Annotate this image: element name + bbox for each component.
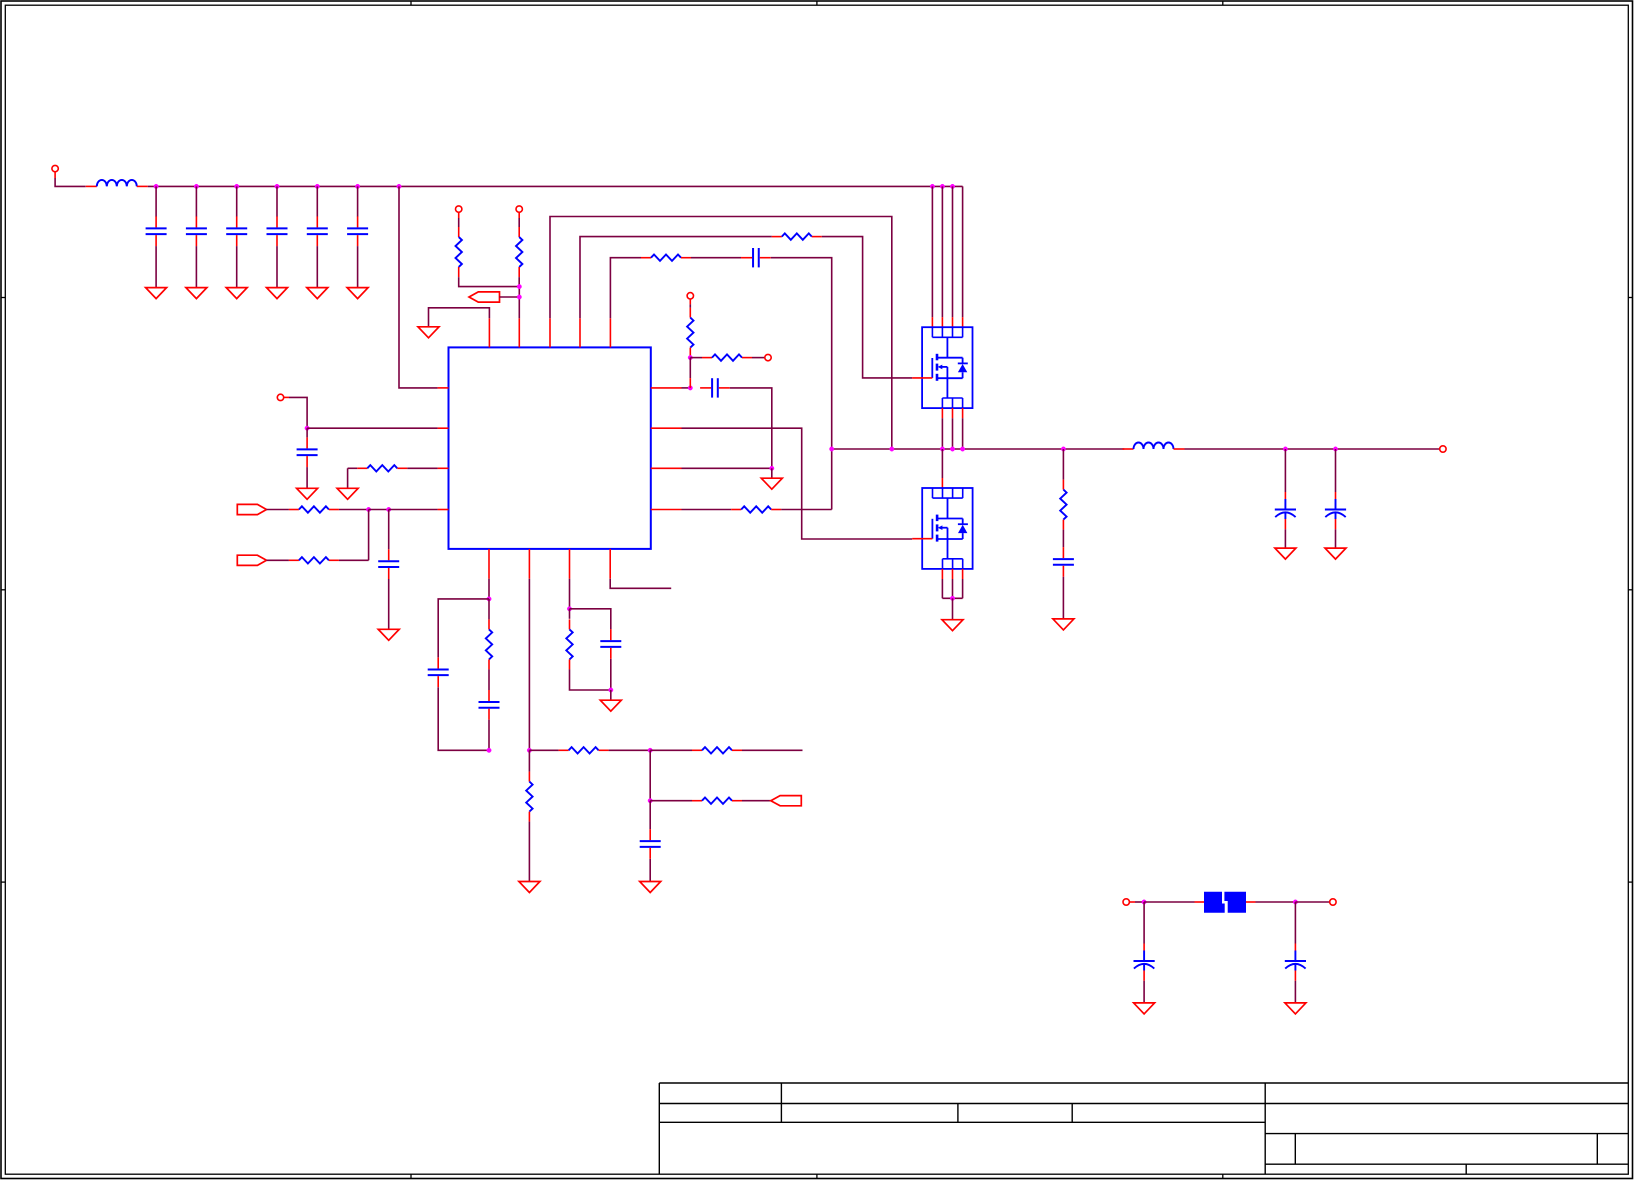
wire filt a down	[1143, 902, 1145, 944]
wire C11 to bottom rail	[438, 687, 489, 750]
ground	[1053, 619, 1074, 630]
port P3	[516, 206, 522, 218]
wire C2 to ground	[195, 246, 197, 288]
resistor R3	[772, 233, 822, 239]
transistor Q1 high-side NMOS	[912, 327, 972, 408]
wire U1 pin5 seg	[610, 258, 641, 319]
wire node to FB1	[1144, 901, 1194, 903]
wire C16 to ground	[1284, 529, 1286, 548]
node divider top	[517, 284, 521, 288]
ground	[640, 882, 661, 893]
ground	[600, 700, 621, 711]
ferrite bead FB1	[1195, 892, 1256, 913]
wire C14 to ground	[649, 859, 651, 882]
capacitor C12	[479, 690, 500, 720]
wire node to R16	[650, 800, 692, 802]
wire tag to node	[499, 296, 517, 298]
wire U1 BST to node	[682, 387, 691, 389]
wire Q1 source wires	[942, 418, 962, 449]
resistor R17	[1060, 480, 1066, 530]
pin R6 right lead	[742, 357, 752, 359]
wire C3 to ground	[236, 246, 238, 288]
wire R3 to Q1 gate	[822, 237, 912, 378]
wire C10 to ground	[388, 579, 390, 629]
capacitor C7	[741, 248, 771, 267]
wire C15 to ground	[1062, 577, 1064, 619]
wire R4 to C7	[691, 257, 741, 259]
wire J3 to node	[1135, 901, 1144, 903]
io tag FB2	[237, 555, 266, 565]
port P4	[687, 293, 693, 305]
wire node to R6h	[690, 357, 702, 359]
wire node to U1	[307, 427, 438, 429]
transistor Q2 low-side NMOS	[912, 488, 972, 569]
node ss bottom	[609, 688, 613, 692]
wire U1 gnd pin	[528, 579, 530, 751]
wire C12 to rail	[488, 720, 490, 751]
wire R12 to ground	[528, 822, 530, 882]
node bottom rail	[648, 748, 652, 752]
resistor R11	[486, 619, 492, 669]
port J2 VOUT	[1440, 446, 1446, 452]
wire node to R15	[650, 749, 692, 751]
node comp	[487, 597, 491, 601]
wire comp left branch	[438, 599, 489, 658]
node rail-Q1 d1	[930, 184, 934, 188]
ground	[1275, 548, 1296, 559]
port J4 filter out	[1330, 899, 1336, 905]
wire tag to R9	[267, 509, 289, 511]
node row3	[770, 466, 774, 470]
resistor R16	[692, 798, 742, 804]
wire R15 end	[742, 749, 803, 751]
resistor R5	[687, 308, 693, 348]
node rail-C6	[355, 184, 359, 188]
node rail-C5	[315, 184, 319, 188]
node rail-Q1 d2	[940, 184, 944, 188]
resistor R4	[641, 255, 691, 261]
node rail-C2	[194, 184, 198, 188]
wire tag to R10	[267, 559, 289, 561]
wire C1 to ground	[155, 246, 157, 288]
wire U1 row4 seg	[682, 509, 732, 511]
wire R8 to U1	[407, 467, 437, 469]
pin U1 right pins	[651, 388, 682, 510]
ground	[1285, 1003, 1306, 1014]
wire U1 comp pin	[488, 579, 490, 599]
inductor L1	[86, 180, 148, 186]
node R5 bottom	[688, 355, 692, 359]
wire Q2 source wires	[942, 579, 962, 598]
node out a	[1283, 447, 1287, 451]
capacitor C9	[297, 437, 318, 467]
wire rail to C2	[195, 186, 197, 216]
ground	[761, 478, 782, 489]
port P5	[765, 354, 771, 360]
port P6	[277, 394, 289, 400]
pin Q1 drain stubs	[932, 317, 962, 327]
resistor R12	[526, 772, 532, 822]
wire R8 corner	[348, 467, 358, 469]
pin Q1 source stubs	[942, 408, 962, 418]
wire C8 to row3	[730, 388, 772, 468]
capacitor C11	[428, 657, 449, 687]
resistor R2	[516, 227, 522, 277]
ground	[1325, 548, 1346, 559]
node filt b	[1293, 900, 1297, 904]
wire Q1 drain wires	[932, 186, 962, 317]
wire node to ground	[610, 690, 612, 700]
capacitor C1	[146, 216, 167, 246]
ground	[378, 629, 399, 640]
wire C4 to ground	[276, 246, 278, 288]
wire P3 to R2	[518, 218, 520, 227]
wire rail to C5	[316, 186, 318, 216]
wire U1 row3 to node	[682, 467, 772, 469]
wire gnd to R8	[347, 468, 349, 488]
capacitor C2	[186, 216, 207, 246]
wire SW to R17	[1062, 449, 1064, 480]
wire P2 to R1	[458, 218, 460, 227]
capacitor C17 polarized	[1325, 492, 1346, 529]
wire rail to C6	[357, 186, 359, 216]
capacitor C10	[378, 549, 399, 579]
wire R13 to bottom	[570, 669, 611, 690]
node rail-C3	[235, 184, 239, 188]
port J3 filter in	[1123, 899, 1135, 905]
wire node to U1 pin2	[518, 287, 520, 319]
wire node to J4	[1295, 901, 1329, 903]
capacitor C13	[600, 629, 621, 659]
pin Q2 source stubs	[942, 569, 962, 579]
resistor R6	[702, 354, 742, 360]
ground	[186, 288, 207, 299]
node SW c	[940, 447, 944, 451]
wire output rail	[1185, 448, 1440, 450]
wire R7 to SW riser	[781, 509, 832, 511]
wire node down	[649, 750, 651, 800]
ground	[297, 488, 318, 499]
io tag EN	[469, 292, 500, 302]
node rail-Q1 d3	[950, 184, 954, 188]
wire FB1 to node	[1256, 901, 1296, 903]
capacitor C19 polarized	[1285, 944, 1306, 981]
node out b	[1333, 447, 1337, 451]
wire R11 to C12	[488, 669, 490, 690]
pin U1 top pins	[489, 318, 610, 347]
wire R2 to node	[518, 277, 520, 287]
wire rail to C3	[236, 186, 238, 216]
node SW b	[890, 447, 894, 451]
wire U1 pin3 to SW	[550, 217, 892, 450]
node SW d	[950, 447, 954, 451]
resistor R8	[357, 465, 407, 471]
pin U1 bottom pins	[489, 549, 610, 579]
IC U1 buck controller	[449, 347, 651, 549]
node rail-VIN pin	[397, 184, 401, 188]
wire out to C17	[1335, 449, 1337, 492]
wire C19 to ground	[1294, 981, 1296, 1003]
wire rail to C4	[276, 186, 278, 216]
wire node to ground	[771, 468, 773, 478]
node divider tag	[517, 295, 521, 299]
resistor R9	[289, 506, 339, 512]
node rail b	[527, 748, 531, 752]
wire VIN to rail	[55, 178, 86, 186]
wire node to C14	[649, 801, 651, 830]
wire ss to R13	[569, 609, 571, 619]
wire comp to R11	[488, 599, 490, 620]
wire node to C9	[306, 428, 308, 437]
node ss	[567, 607, 571, 611]
wire rail to C1	[155, 186, 157, 216]
inductor L2	[1123, 443, 1185, 449]
node rail-C1	[154, 184, 158, 188]
resistor R7	[731, 506, 781, 512]
wire C5 to ground	[316, 246, 318, 288]
wire SW rail left	[832, 448, 1125, 450]
wire node to R6	[689, 358, 691, 379]
wire R6 to P5	[752, 357, 765, 359]
resistor R14	[559, 747, 609, 753]
wire out to C16	[1284, 449, 1286, 492]
ground	[1134, 1003, 1155, 1014]
wire node to C10	[388, 510, 390, 550]
wire R16 to tag	[742, 800, 771, 802]
ground	[519, 882, 540, 893]
ground	[267, 288, 288, 299]
node SW snubber	[1061, 447, 1065, 451]
wire rail to U1 VIN pin	[399, 186, 438, 388]
ground	[942, 620, 963, 631]
wire U1 nc pin	[610, 579, 671, 589]
wire ss to C13	[570, 609, 611, 629]
wire SW to Q2 drain	[941, 449, 943, 478]
capacitor C5	[307, 216, 328, 246]
ground	[226, 288, 247, 299]
wire P6 to node	[289, 397, 307, 428]
capacitor C14	[640, 829, 661, 859]
wire U1 pin to Q2 gate	[682, 428, 913, 539]
resistor R10	[289, 557, 339, 563]
resistor R15	[692, 747, 742, 753]
ground	[418, 327, 439, 338]
wire R14 to node	[609, 749, 651, 751]
wire fb branch down	[368, 510, 370, 561]
wire C13 to node	[610, 659, 612, 690]
node SW e	[960, 447, 964, 451]
ground	[337, 488, 358, 499]
node fb b	[387, 507, 391, 511]
pin Q2 drain stub	[941, 478, 943, 488]
node rail a	[487, 748, 491, 752]
capacitor C8	[700, 378, 730, 397]
node Q2 source	[950, 596, 954, 600]
ground	[347, 288, 368, 299]
wire R17 to C15	[1062, 530, 1064, 548]
capacitor C6	[347, 216, 368, 246]
wire node to node	[369, 509, 389, 511]
node sense	[648, 799, 652, 803]
wire Q2 source to ground	[952, 598, 954, 619]
io tag FB1	[237, 504, 266, 514]
node BST	[688, 386, 692, 390]
wire R10 to branch	[339, 559, 369, 561]
node fb a	[366, 507, 370, 511]
ground	[146, 288, 167, 299]
wire C6 to ground	[357, 246, 359, 288]
capacitor C16 polarized	[1275, 492, 1296, 529]
capacitor C3	[226, 216, 247, 246]
node filt a	[1142, 900, 1146, 904]
wire U1 pin4 seg	[580, 237, 772, 319]
wire U1 ss pin	[569, 579, 571, 609]
wire input rail	[148, 185, 963, 187]
ground	[307, 288, 328, 299]
wire node to U1 fb	[389, 509, 438, 511]
wire filt b down	[1294, 902, 1296, 944]
wire C18 to ground	[1143, 981, 1145, 1003]
wire below node	[528, 750, 530, 771]
node rail-C4	[275, 184, 279, 188]
wire U1 pin1 to ground	[429, 308, 490, 327]
pin U1 left pins	[438, 388, 449, 510]
io tag ISENSE	[771, 796, 802, 806]
capacitor C15	[1053, 547, 1074, 577]
resistor R13	[566, 619, 572, 669]
node left row2	[305, 426, 309, 430]
wire P4 to R5	[689, 304, 691, 307]
resistor R1	[456, 227, 462, 277]
port P2	[456, 206, 462, 218]
capacitor C4	[267, 216, 288, 246]
wire bottom rail seg1	[529, 749, 558, 751]
wire C7 to SW riser	[771, 258, 832, 510]
wire C9 to ground	[306, 467, 308, 488]
capacitor C18 polarized	[1134, 944, 1155, 981]
node SW a	[830, 447, 834, 451]
wire R9 to node	[339, 509, 369, 511]
wire C17 to ground	[1335, 529, 1337, 548]
wire R1 to node	[459, 277, 520, 287]
port J1 VIN	[52, 165, 58, 178]
